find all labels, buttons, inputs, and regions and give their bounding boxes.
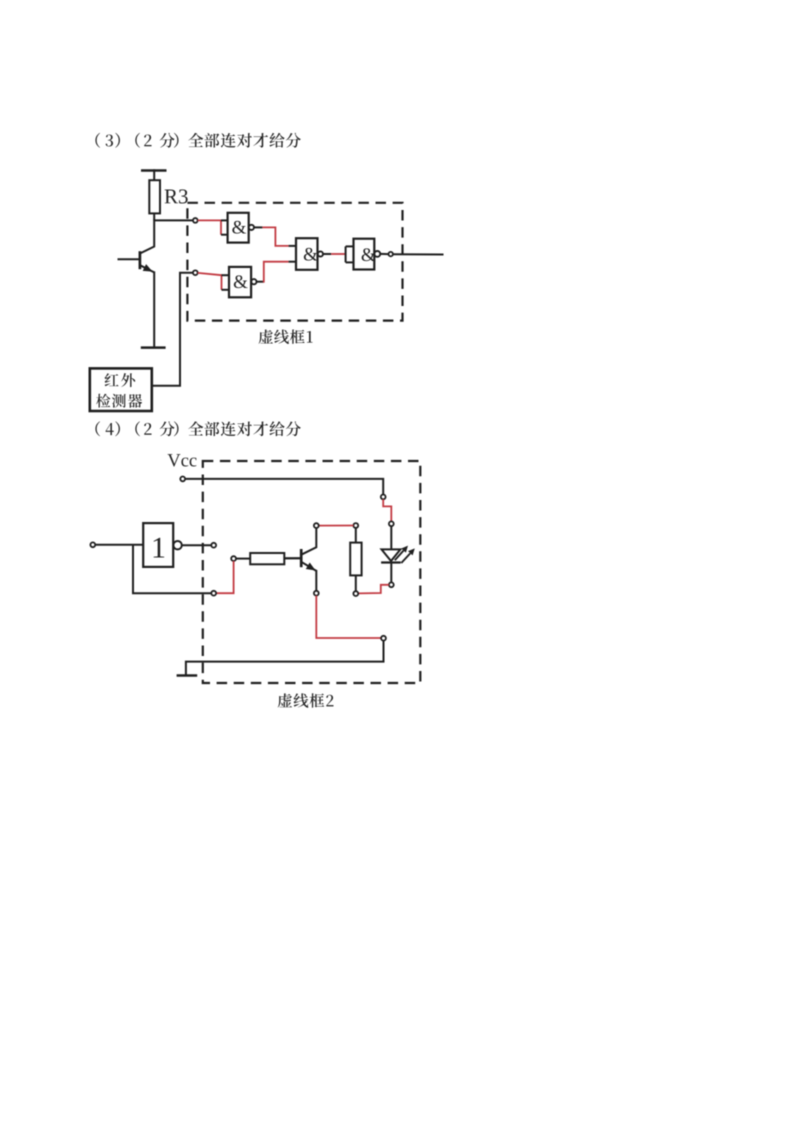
G4 input tie bar xyxy=(345,246,347,262)
terminal e (LED anode) xyxy=(389,521,394,526)
G3 output stub xyxy=(257,281,264,283)
red wire emitter to terminal k xyxy=(316,596,381,638)
G3 output bubble xyxy=(251,279,256,284)
terminal b xyxy=(193,270,198,275)
G3 input pin stubs xyxy=(222,274,230,276)
terminal d xyxy=(381,495,386,500)
LED anode lead xyxy=(390,526,392,549)
heading line (3) xyxy=(95,133,300,148)
resistor R5 xyxy=(350,543,361,576)
wire branch to terminal m xyxy=(133,545,211,593)
LED emission arrow 1 xyxy=(395,551,404,561)
G4 input pin stubs xyxy=(346,245,354,247)
infrared detector box xyxy=(90,368,152,411)
wire collector Q1 xyxy=(140,219,154,253)
label hongwai xyxy=(105,373,136,387)
label xuxiankuang2 xyxy=(278,693,334,707)
resistor R4 xyxy=(250,553,284,564)
terminal h (R5 top) xyxy=(353,523,358,528)
wire Q2 collector xyxy=(302,528,316,554)
ground circuit 1 xyxy=(141,346,166,349)
LED D1 cathode bar xyxy=(381,561,401,563)
wire rail to R3 xyxy=(153,169,155,180)
LED D1 triangle xyxy=(382,549,401,561)
wire R3 to node xyxy=(153,213,155,220)
red wire terminal a to G1 inputs xyxy=(198,219,221,221)
dashed box 1 xyxy=(187,203,402,321)
heading line (4) xyxy=(95,421,300,436)
terminal m xyxy=(211,591,216,596)
ground circuit 2 xyxy=(177,674,198,677)
transistor Q1 emitter with arrow xyxy=(140,265,154,272)
wire Q2 emitter down xyxy=(315,570,317,591)
wire Vcc rail xyxy=(185,479,383,495)
G2 output stub xyxy=(323,253,331,255)
terminal l (R4 left) xyxy=(231,556,236,561)
red wire terminal l to terminal m xyxy=(216,561,234,593)
terminal j (Q2 emitter) xyxy=(314,591,319,596)
label jianceqi xyxy=(96,394,142,408)
R4 right lead to base xyxy=(284,557,301,559)
G2 input pin stub 2 xyxy=(289,261,296,263)
wire base Q2 xyxy=(284,557,301,559)
NAND gate G1 xyxy=(228,213,249,243)
resistor R5 leads xyxy=(355,575,357,591)
wire G4 bubble to terminal c xyxy=(380,253,388,255)
label Vcc xyxy=(168,454,197,466)
transistor Q2 base bar xyxy=(300,549,303,567)
G2 output bubble xyxy=(318,251,323,256)
LED cathode lead xyxy=(390,563,392,583)
terminal c xyxy=(389,252,393,256)
G1 input pin stubs xyxy=(221,219,228,221)
transistor Q1 base bar xyxy=(139,251,142,269)
U1 output bubble xyxy=(173,541,181,549)
terminal Vcc xyxy=(180,477,185,482)
dashed box 2 xyxy=(203,461,420,683)
red wire G1 out to G2 input 1 xyxy=(262,227,288,246)
red wire G2 out to G4 xyxy=(331,253,346,255)
R4 left lead xyxy=(236,558,250,560)
wire base Q1 xyxy=(118,258,140,260)
red wire LED cathode to R5 bottom xyxy=(358,585,389,594)
transistor Q2 emitter with arrow xyxy=(301,562,316,571)
red wire collector to R5 top xyxy=(319,525,354,527)
NAND gate G4 xyxy=(354,239,375,270)
wire terminal k to ground rail xyxy=(186,641,384,676)
terminal f (LED cathode) xyxy=(389,582,394,587)
power rail (Vcc bar) circuit 1 xyxy=(141,169,167,172)
terminal i (Q2 collector) xyxy=(314,523,319,528)
terminal g (R5 bottom) xyxy=(353,591,358,596)
LED emission arrow 2 xyxy=(401,553,410,563)
red wire terminal d to LED anode xyxy=(383,499,391,521)
G1 output stub xyxy=(254,226,262,228)
wire U1 out to terminal n xyxy=(182,544,212,546)
terminal a xyxy=(193,218,198,223)
label xuxiankuang1 xyxy=(259,329,313,343)
resistor R3 xyxy=(149,180,160,213)
NAND gate G3 xyxy=(229,267,251,297)
terminal n xyxy=(211,543,216,548)
G1 output bubble xyxy=(249,225,254,230)
wire emitter to ground xyxy=(153,271,155,347)
terminal k xyxy=(381,636,386,641)
buffer gate U1 xyxy=(143,523,173,567)
input wire xyxy=(95,544,143,546)
G2 input pin stub 1 xyxy=(289,245,296,247)
label R3 xyxy=(165,189,188,203)
output wire circuit 1 xyxy=(393,253,444,255)
input terminal xyxy=(90,542,95,547)
red wire terminal b to G3 inputs xyxy=(198,273,222,275)
G4 output bubble xyxy=(374,251,380,257)
wire terminal b to infrared detector xyxy=(152,273,193,386)
wire node to terminal a xyxy=(154,219,193,221)
NAND gate G2 xyxy=(296,238,318,270)
red wire G3 out to G2 input 2 xyxy=(264,262,289,283)
